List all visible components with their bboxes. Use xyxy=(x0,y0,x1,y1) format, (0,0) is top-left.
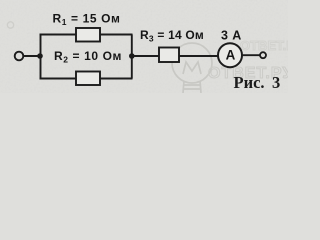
wire from ammeter to terminal T2 xyxy=(242,54,260,56)
node A (left junction dot) xyxy=(37,53,43,59)
wire: top branch, right segment xyxy=(100,34,133,36)
wire from T1 to node A xyxy=(24,55,42,57)
node B (right junction dot) xyxy=(129,53,135,59)
resistor R2 xyxy=(76,72,100,86)
watermark speck (decorative) xyxy=(7,22,13,28)
svg-text:ОТВЕТ.РУ: ОТВЕТ.РУ xyxy=(240,38,288,53)
ammeter PA1 xyxy=(218,43,242,67)
svg-text:Рис.3: Рис.3 xyxy=(234,73,281,92)
resistor R3 xyxy=(159,48,179,63)
wire: left vertical of parallel section xyxy=(40,35,42,79)
wire: top branch, left segment xyxy=(40,34,77,36)
wire from node B to R3 xyxy=(132,55,159,57)
terminal T1 (left input) xyxy=(15,52,24,61)
watermark text (decorative) xyxy=(208,38,304,82)
svg-text:A: A xyxy=(226,47,236,62)
wire: right vertical of parallel section xyxy=(131,35,133,79)
watermark bulb (decorative) xyxy=(172,43,212,93)
terminal T2 (right output) xyxy=(260,52,266,58)
wire: bottom branch, right segment xyxy=(100,78,133,80)
wire from R3 to ammeter xyxy=(179,55,218,57)
svg-text:3 А: 3 А xyxy=(221,29,242,43)
resistor R1 xyxy=(76,28,100,42)
wire: bottom branch, left segment xyxy=(40,78,77,80)
